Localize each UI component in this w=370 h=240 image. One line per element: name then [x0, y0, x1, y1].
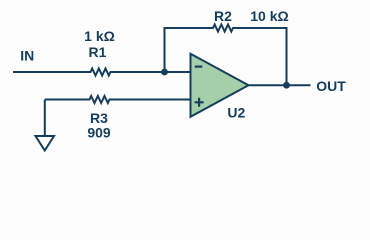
node B: output junction with feedback: [283, 82, 290, 89]
svg-text:R1: R1: [89, 44, 107, 60]
svg-text:1 kΩ: 1 kΩ: [84, 28, 115, 44]
ground: [36, 136, 55, 151]
wire: from R3 down to ground: [44, 100, 46, 137]
svg-text:R3: R3: [90, 110, 108, 126]
pin: inverting input minus sign: [195, 65, 203, 67]
op-amp U2 (triangle body): [191, 54, 249, 117]
svg-text:IN: IN: [20, 47, 34, 63]
svg-text:909: 909: [87, 125, 111, 141]
wire: feedback loop with resistor R2 (up, across top, down to output node): [165, 25, 287, 86]
wire: output line: [248, 84, 311, 86]
svg-text:10 kΩ: 10 kΩ: [250, 8, 288, 24]
node A: junction of R1, feedback and inverting input: [161, 69, 168, 76]
wire: non-inverting input line through R3: [45, 96, 190, 103]
pin: non-inverting input plus sign: [195, 98, 204, 107]
svg-text:U2: U2: [227, 104, 245, 120]
svg-text:OUT: OUT: [316, 78, 346, 94]
svg-text:R2: R2: [214, 8, 232, 24]
wire: IN line through R1 to inverting input: [13, 69, 190, 76]
